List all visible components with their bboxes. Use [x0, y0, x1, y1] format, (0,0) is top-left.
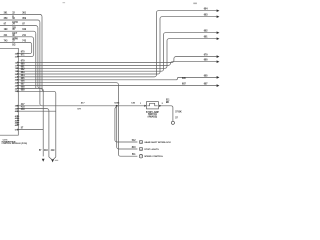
label exit 684 at y10.7	[204, 8, 209, 11]
svg-text:810: 810	[132, 147, 137, 149]
svg-text:(4WABS): (4WABS)	[148, 116, 158, 119]
label pin 2 at switch	[162, 103, 164, 105]
wire W3 vertical drop x37.9 joins run88	[38, 28, 40, 89]
wire W3 circuit 97 horizontal run	[0, 26, 38, 28]
pin 38 stop lamp feed stub	[15, 103, 40, 108]
svg-text:682: 682	[204, 31, 209, 33]
node STOP LIGHTS wire label	[132, 147, 137, 149]
pin 25 wire circuit 688	[15, 86, 44, 156]
label 417 on run	[81, 102, 85, 105]
svg-text:140: 140	[131, 102, 135, 105]
wire W1 circuit 361 horizontal run	[0, 14, 42, 16]
label exit 687 at y85.6	[204, 84, 209, 86]
arrow exit at y61.7	[217, 60, 220, 63]
svg-text:STOP LIGHTS: STOP LIGHTS	[144, 149, 159, 151]
pin arrow into switch	[144, 105, 146, 107]
switch SW1 contact symbol	[147, 103, 157, 106]
label W6 mid 37	[12, 40, 16, 46]
pin 16 wire circuit 679	[15, 57, 217, 65]
pin 30 wire to W6	[15, 52, 30, 56]
svg-text:418: 418	[44, 149, 49, 152]
pin 18 wire circuit 681	[15, 39, 217, 70]
svg-text:419: 419	[51, 149, 56, 152]
pin 31 wire to W5	[15, 55, 32, 59]
svg-text:O/Y: O/Y	[77, 109, 81, 111]
arrow exit at y56.6	[217, 55, 220, 58]
wire W6 vertical drop x31.7 to pin curve	[30, 45, 32, 54]
label bottom drop 419	[51, 149, 56, 152]
label 140 before switch	[131, 102, 135, 105]
label W4 right 199	[22, 29, 27, 31]
label W1 right 361	[22, 12, 27, 14]
label 511 after switch	[166, 100, 170, 105]
connector label POWERTRAIN CONTROL MODULE	[2, 140, 28, 146]
wire W2 vertical drop x39.9 to stop lamp feed	[40, 22, 42, 106]
svg-text:684: 684	[204, 8, 209, 11]
pin 20 wire circuit 683	[15, 17, 217, 76]
pin 19 wire circuit 682	[15, 33, 217, 73]
label W6 left 743	[4, 39, 9, 42]
pin 21 wire circuit 684	[15, 11, 217, 79]
label bottom drop 57	[39, 150, 42, 152]
svg-text:679: 679	[204, 55, 209, 57]
svg-text:680: 680	[204, 60, 209, 62]
label bottom drop 418	[44, 149, 49, 152]
pin 57 stub joins x43.2 vertical	[15, 128, 44, 132]
node SPEED CONTROL terminal circle	[139, 154, 143, 158]
pin 41 no wire	[15, 115, 20, 118]
pin 39 wire down at x48.9	[15, 106, 49, 157]
svg-text:685: 685	[204, 75, 209, 77]
svg-text:DG: DG	[12, 44, 16, 46]
svg-text:BK: BK	[166, 102, 170, 104]
label W2 left 359	[4, 18, 9, 20]
svg-text:2: 2	[162, 103, 164, 105]
label pin 1 at switch	[140, 103, 142, 105]
svg-text:743: 743	[4, 39, 9, 42]
wire W4 vertical drop x35.8 joins run88	[35, 33, 37, 88]
label W6 right 743	[22, 39, 27, 42]
svg-text:683: 683	[204, 15, 209, 17]
label W3 right 97	[22, 24, 25, 26]
wire W5 circuit 211 horizontal run	[0, 37, 34, 39]
svg-text:1: 1	[140, 103, 142, 105]
pin 43 no wire	[15, 119, 20, 122]
label W5 left 211	[4, 35, 8, 37]
wire W2 circuit 359 horizontal run	[0, 20, 40, 22]
svg-text:512: 512	[132, 140, 137, 142]
label 57 right of drop	[175, 111, 182, 113]
pin 44 no wire	[15, 122, 20, 125]
wire W5 vertical drop x33.7 to pin curve	[32, 39, 34, 57]
wire splice left leg to gear shift interlock	[115, 106, 137, 142]
label exit 681 at y38.7	[204, 37, 209, 39]
label W4 left 199	[4, 29, 9, 31]
svg-text:681: 681	[204, 37, 209, 39]
switch SW1 stop lamp box	[147, 102, 159, 109]
svg-text:57: 57	[39, 150, 42, 152]
pin 42 no wire	[15, 117, 20, 120]
label exit 683 at y16.7	[204, 15, 209, 17]
arrow exit at y85.6	[217, 84, 220, 87]
label W1 mid 32	[12, 12, 15, 18]
label exit 685 at y77.4	[204, 75, 209, 77]
pin 40 stub joins x55.8 vertical	[15, 108, 56, 113]
label GEAR SHIFT INTERLOCK	[144, 141, 171, 144]
svg-text:CONTROL MODULE (PCM): CONTROL MODULE (PCM)	[2, 143, 28, 145]
arrow exit at y32.7	[217, 31, 220, 34]
label color on run	[77, 109, 81, 111]
label exit 679 at y56.6	[204, 55, 209, 57]
label W1 left 361	[4, 12, 9, 14]
arrow exit at y38.7	[217, 37, 220, 40]
wire after switch	[161, 106, 173, 122]
wire stop lamp run 417	[42, 105, 144, 107]
wire twisted pair merge	[49, 157, 56, 160]
ground S158 arrow right	[51, 159, 54, 162]
label STOP LIGHTS	[144, 149, 159, 151]
svg-text:687: 687	[204, 84, 209, 86]
wire W6 circuit 743 horizontal run	[0, 42, 32, 44]
wire W4 circuit 199 horizontal run	[0, 31, 36, 33]
arrow exit at y16.7	[217, 15, 220, 18]
ground G100 ring	[171, 121, 174, 124]
svg-text:417: 417	[21, 103, 26, 106]
arrow exit at y10.7	[217, 9, 220, 12]
label W3 mid 34	[12, 23, 16, 30]
label W2 right 359	[22, 18, 27, 20]
pin 23 wire circuit 686	[15, 81, 138, 157]
node GEAR SHIFT INTERLOCK terminal circle	[139, 140, 143, 144]
label exit 682 at y32.7	[204, 31, 209, 33]
ground S157 arrow left	[42, 159, 45, 162]
splice S206 dot	[116, 105, 118, 107]
svg-text:GEAR SHIFT INTERLOCK: GEAR SHIFT INTERLOCK	[144, 141, 171, 144]
pin 17 wire circuit 680	[15, 62, 217, 68]
label W3 left 97	[4, 24, 7, 26]
label SPEED CONTROL	[144, 156, 164, 158]
connector C1 PCM outline	[0, 48, 18, 135]
arrow exit at y77.4	[217, 76, 220, 79]
label W4 mid 35	[12, 29, 18, 35]
pin 22 wire circuit 685	[15, 77, 217, 81]
svg-text:743: 743	[22, 39, 27, 42]
svg-text:57: 57	[175, 118, 178, 120]
svg-text:SPEED CONTROL: SPEED CONTROL	[144, 156, 164, 158]
wire W1 vertical drop x42	[42, 17, 44, 92]
pin 26 wire run91 down at x55.8	[15, 89, 56, 157]
ground tick right of V	[55, 159, 58, 161]
pin 45 no wire	[15, 124, 20, 127]
pin 24 wire circuit 687	[15, 84, 217, 88]
node GEAR SHIFT INTERLOCK wire label	[132, 140, 137, 142]
label W2 mid 33	[12, 18, 18, 24]
label 57A right of drop	[175, 118, 178, 120]
node SPEED CONTROL wire label	[132, 154, 136, 156]
wire splice mid leg to stop lights	[117, 106, 138, 149]
label exit 680 at y61.7	[204, 60, 209, 62]
label splice S206	[114, 102, 120, 104]
page reference mark center	[63, 2, 66, 3]
svg-text:S206: S206	[114, 102, 120, 104]
label STOP LAMP SWITCH	[146, 111, 160, 119]
svg-text:685: 685	[182, 78, 187, 80]
svg-text:417: 417	[81, 102, 85, 105]
label W5 right 211	[22, 35, 26, 37]
svg-text:511: 511	[132, 154, 136, 156]
svg-text:57 BK: 57 BK	[175, 111, 182, 113]
pin arrow out of switch	[159, 105, 161, 107]
page reference mark	[193, 3, 197, 5]
node STOP LIGHTS terminal circle	[139, 147, 143, 151]
label W5 mid 36	[12, 35, 18, 41]
